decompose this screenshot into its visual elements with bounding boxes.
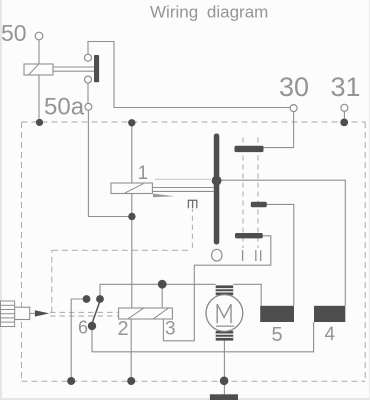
svg-text:31: 31: [331, 72, 361, 102]
svg-text:2: 2: [118, 318, 129, 340]
svg-text:1: 1: [138, 163, 149, 184]
svg-text:5: 5: [272, 324, 283, 346]
svg-text:3: 3: [165, 319, 176, 340]
svg-text:50: 50: [1, 20, 27, 46]
svg-text:30: 30: [279, 72, 309, 102]
svg-text:6: 6: [78, 318, 88, 338]
svg-text:50a: 50a: [44, 94, 85, 121]
svg-text:4: 4: [325, 324, 336, 345]
svg-text:Wiring diagram: Wiring diagram: [150, 3, 268, 22]
